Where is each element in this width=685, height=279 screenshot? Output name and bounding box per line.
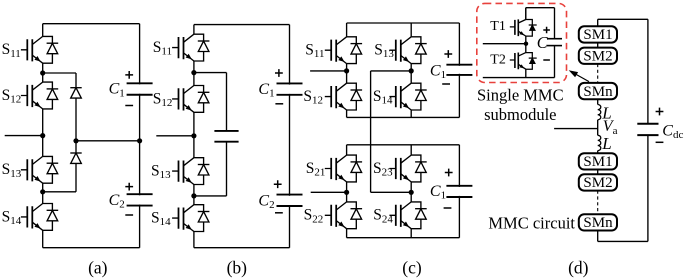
svg-text:SM2: SM2 [583, 175, 612, 191]
svg-text:(a): (a) [88, 257, 108, 277]
svg-text:Single MMC: Single MMC [477, 86, 564, 105]
svg-text:T2: T2 [490, 52, 506, 67]
svg-text:SM1: SM1 [583, 154, 612, 170]
svg-text:L: L [601, 134, 611, 153]
svg-text:submodule: submodule [484, 105, 556, 124]
svg-text:SM1: SM1 [583, 27, 612, 43]
svg-text:MMC circuit: MMC circuit [488, 214, 575, 233]
svg-text:SM2: SM2 [583, 49, 612, 65]
svg-text:(c): (c) [402, 257, 422, 277]
svg-text:SMn: SMn [583, 215, 613, 231]
svg-text:(d): (d) [568, 257, 589, 277]
svg-text:C: C [537, 33, 549, 52]
svg-text:SMn: SMn [583, 84, 613, 100]
svg-text:T1: T1 [490, 19, 506, 34]
svg-text:(b): (b) [227, 257, 248, 277]
